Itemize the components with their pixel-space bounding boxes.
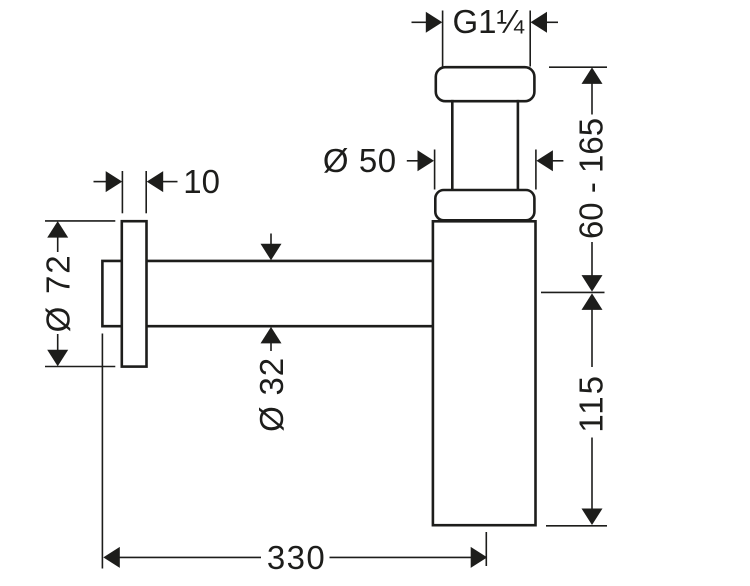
dia50 right arrow tail	[552, 160, 564, 162]
G1 1/4 right arrow tail	[547, 21, 558, 23]
nut flange	[435, 190, 534, 220]
right junction up arrowhead	[582, 293, 603, 310]
dia50 left arrow tail	[407, 160, 419, 162]
dim10 left extension line	[121, 171, 123, 213]
G1 1/4 left arrow tail	[412, 21, 427, 23]
dia32 down arrowhead	[261, 244, 282, 260]
right top up arrowhead	[582, 67, 603, 84]
G1 1/4 right arrowhead	[531, 12, 548, 33]
svg-text:Ø 50: Ø 50	[323, 142, 397, 179]
right dim line segment 115 upper	[591, 310, 593, 368]
dia72 top extension line	[45, 220, 115, 222]
dim10 right extension line	[145, 171, 147, 213]
dia32 up arrowhead	[261, 327, 282, 344]
dia72 down arrowhead	[47, 350, 68, 367]
svg-text:60 - 165: 60 - 165	[572, 118, 609, 239]
dim330 left extension line	[101, 334, 103, 569]
dim10 right arrow tail	[163, 181, 178, 183]
wall flange	[122, 221, 147, 366]
dia72 dim line upper segment	[57, 237, 59, 253]
svg-text:G1¼: G1¼	[453, 3, 525, 40]
svg-text:330: 330	[267, 539, 326, 576]
dia32 lower arrow tail	[270, 343, 272, 352]
dim330 line left segment	[119, 556, 261, 558]
dim330 line right segment	[330, 556, 472, 558]
pipe top line	[146, 260, 433, 263]
G1 1/4 left arrowhead	[426, 12, 443, 33]
dim10 left arrow tail	[94, 181, 107, 183]
dim330 left-pointing arrowhead	[103, 547, 120, 568]
dia50 right arrowhead	[536, 150, 553, 171]
dim10 right-pointing arrowhead	[106, 171, 123, 192]
dia32 upper arrow tail	[270, 234, 272, 246]
neck left line	[451, 101, 454, 190]
dim10 left-pointing arrowhead	[147, 171, 164, 192]
right bottom extension line	[546, 525, 607, 527]
right dim line segment 60-165 lower	[591, 242, 593, 276]
dim330 right-pointing arrowhead	[471, 547, 488, 568]
right dim line segment 115 lower	[591, 438, 593, 510]
svg-text:115: 115	[572, 374, 609, 433]
svg-text:Ø 72: Ø 72	[40, 254, 77, 333]
dia72 dim line lower segment	[57, 334, 59, 351]
svg-text:Ø 32: Ø 32	[253, 357, 290, 432]
right junction down arrowhead	[582, 275, 603, 292]
G1 1/4 right extension line	[529, 11, 531, 67]
neck right line	[517, 101, 520, 190]
trap body	[433, 221, 536, 525]
pipe stub (left end)	[102, 261, 121, 326]
dia50 left arrowhead	[418, 150, 435, 171]
G1 1/4 left extension line	[442, 11, 444, 67]
dia72 bottom extension line	[45, 366, 115, 368]
right top extension line	[549, 66, 607, 68]
right bottom down arrowhead	[582, 509, 603, 526]
pipe bottom line	[146, 325, 433, 328]
right junction extension line	[541, 291, 605, 293]
svg-text:10: 10	[183, 163, 220, 200]
dim330 right extension line	[485, 532, 487, 566]
dia50 right extension line	[535, 150, 537, 190]
dia50 left extension line	[434, 150, 436, 190]
top flange	[436, 67, 535, 101]
dia72 up arrowhead	[47, 221, 68, 238]
right dim line segment 60-165 upper	[591, 84, 593, 115]
